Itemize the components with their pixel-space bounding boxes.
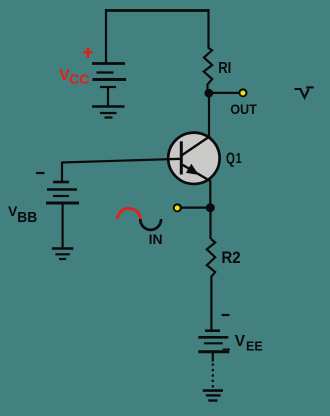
svg-text:V: V (235, 333, 246, 350)
svg-text:BB: BB (17, 210, 37, 226)
svg-text:RI: RI (218, 60, 231, 77)
svg-text:Q: Q (226, 150, 235, 167)
svg-text:IN: IN (149, 231, 163, 247)
svg-text:1: 1 (236, 150, 242, 167)
svg-text:EE: EE (246, 339, 263, 354)
svg-text:R2: R2 (221, 248, 240, 267)
svg-text:CC: CC (69, 71, 89, 87)
svg-text:OUT: OUT (230, 101, 257, 117)
